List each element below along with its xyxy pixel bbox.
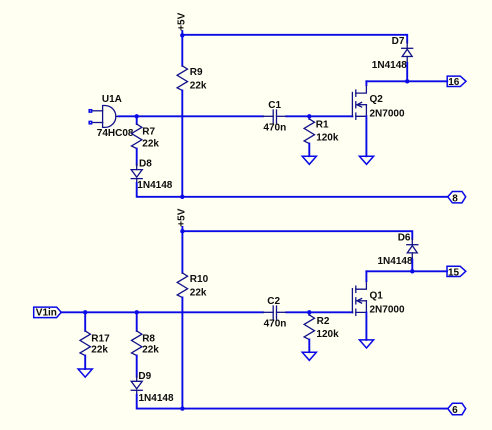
svg-text:120k: 120k [316, 133, 339, 144]
svg-text:2N7000: 2N7000 [370, 108, 405, 119]
svg-text:22k: 22k [190, 288, 207, 299]
svg-text:U1A: U1A [102, 94, 122, 105]
wire Q2 drain to node 16 wire [365, 81, 367, 85]
wire gate net from U1A output to C1 [119, 115, 263, 117]
svg-text:1N4148: 1N4148 [137, 180, 172, 191]
svg-text:16: 16 [448, 77, 460, 88]
diode D6 [378, 232, 418, 267]
capacitor C2 [263, 296, 286, 330]
op-amp U1A (AND gate 74HC08) [92, 94, 134, 139]
wire R9 bottom lead down to lower rail (crosses gate wire, no dot) [181, 90, 183, 196]
wire R1 bottom lead to ground [308, 144, 310, 157]
svg-text:+5V: +5V [177, 12, 188, 30]
node junction at R7 top [135, 114, 139, 118]
svg-text:R2: R2 [317, 316, 330, 327]
resistor R7 [132, 124, 160, 149]
ground below Q1 [359, 340, 373, 348]
resistor R9 [177, 66, 207, 92]
svg-text:C2: C2 [267, 296, 280, 307]
node junction at R1 top [307, 114, 311, 118]
resistor R2 [304, 315, 339, 340]
svg-text:R1: R1 [316, 120, 329, 131]
wire D7 anode down to node 16 wire [406, 63, 408, 81]
node +5V junction (bottom) [180, 229, 184, 233]
capacitor C1 [263, 100, 286, 134]
svg-text:R9: R9 [190, 67, 203, 78]
transistor Q1 (2N7000 NMOS) [352, 280, 405, 315]
wire D6 anode down to node 15 wire [411, 259, 413, 271]
svg-text:74HC08: 74HC08 [97, 128, 134, 139]
wire R8 bottom lead to D9 [136, 356, 138, 377]
ground below R2 [302, 352, 316, 360]
wire R2 top lead [308, 312, 310, 315]
svg-text:22k: 22k [190, 81, 207, 92]
tag net 6 [448, 403, 466, 416]
wire Q2 source to ground [365, 116, 367, 156]
svg-text:2N7000: 2N7000 [370, 305, 405, 316]
transistor Q2 (2N7000 NMOS) [352, 84, 405, 119]
node junction at R2 top [307, 310, 311, 314]
node junction at R8 top [135, 310, 139, 314]
node junction at R17 top [83, 310, 87, 314]
wire V1in to C2 [61, 311, 263, 313]
tag net 15 [447, 266, 466, 278]
svg-text:22k: 22k [142, 138, 159, 149]
wire R2 bottom lead to ground [308, 340, 310, 353]
svg-text:8: 8 [452, 193, 458, 204]
resistor R1 [304, 119, 339, 144]
resistor R8 [132, 331, 160, 356]
wire Q1 drain to node 15 wire [365, 271, 367, 281]
wire rail down to R10 [181, 231, 183, 273]
svg-text:Q1: Q1 [370, 290, 384, 301]
diode D7 [372, 36, 413, 71]
svg-text:1N4148: 1N4148 [139, 393, 174, 404]
wire R17 bottom lead to ground [84, 356, 86, 370]
ground below Q2 [359, 156, 373, 164]
wire gate net from C2 to Q1 gate [286, 311, 352, 313]
diode D9 [131, 371, 174, 404]
svg-text:R8: R8 [142, 333, 155, 344]
wire R1 top lead [308, 116, 310, 119]
wire top rail to D7 [182, 35, 407, 43]
wire R7 bottom lead to D8 [136, 149, 138, 165]
svg-text:R10: R10 [190, 274, 209, 285]
svg-text:D6: D6 [398, 232, 411, 243]
tag net 16 [447, 76, 466, 88]
resistor R17 [80, 331, 110, 356]
svg-text:R7: R7 [142, 126, 155, 137]
wire R8 top lead [136, 312, 138, 331]
wire top rail to D6 [182, 231, 412, 239]
svg-text:V1in: V1in [36, 308, 57, 319]
svg-text:C1: C1 [268, 100, 281, 111]
diode D8 [131, 158, 173, 191]
svg-text:+5V: +5V [177, 208, 188, 226]
svg-text:15: 15 [448, 267, 460, 278]
wire node 15 horizontal (Q1 drain to tag) [366, 270, 447, 272]
wire R7 top lead [136, 116, 138, 124]
svg-text:D8: D8 [139, 158, 152, 169]
node junction lower rail / R9 rail [180, 195, 184, 199]
node junction at D6 / node 15 wire [410, 269, 414, 273]
wire +5V stub (top) [181, 31, 183, 35]
svg-text:D9: D9 [138, 371, 151, 382]
svg-text:R17: R17 [91, 333, 110, 344]
node junction at D7 / node 16 wire [405, 79, 409, 83]
node +5V junction (top) [180, 33, 184, 37]
svg-text:120k: 120k [316, 329, 339, 340]
svg-text:470n: 470n [264, 319, 287, 330]
svg-text:D7: D7 [392, 36, 405, 47]
svg-text:1N4148: 1N4148 [378, 256, 413, 267]
ground below R17 [78, 369, 92, 377]
svg-text:1N4148: 1N4148 [372, 60, 407, 71]
node junction lower rail / R10 rail [180, 406, 184, 410]
wire rail down through R9 position (upper lead) [181, 35, 183, 66]
wire node 16 horizontal (Q2 drain to tag) [366, 80, 447, 82]
wire gate net from C1 to Q2 gate [286, 115, 352, 117]
svg-text:Q2: Q2 [370, 94, 384, 105]
pin U1A input 2 open square [89, 121, 91, 123]
wire R17 top lead [84, 312, 86, 331]
tag net V1in [34, 307, 62, 319]
svg-text:22k: 22k [142, 344, 159, 355]
wire R10 bottom lead down to lower rail (crosses V1in wire, no dot) [181, 298, 183, 409]
wire +5V stub (bottom) [181, 227, 183, 231]
wire Q1 source to ground [365, 312, 367, 340]
wire D9 cathode down and lower rail to tag 6 [137, 395, 448, 409]
svg-text:22k: 22k [91, 344, 108, 355]
ground below R1 [302, 156, 316, 164]
resistor R10 [177, 273, 208, 299]
svg-text:470n: 470n [263, 123, 286, 134]
svg-text:6: 6 [452, 405, 458, 416]
pin U1A input 1 open square [89, 110, 91, 112]
wire D8 cathode down and lower rail to tag 8 [137, 183, 448, 197]
tag net 8 [448, 192, 466, 205]
